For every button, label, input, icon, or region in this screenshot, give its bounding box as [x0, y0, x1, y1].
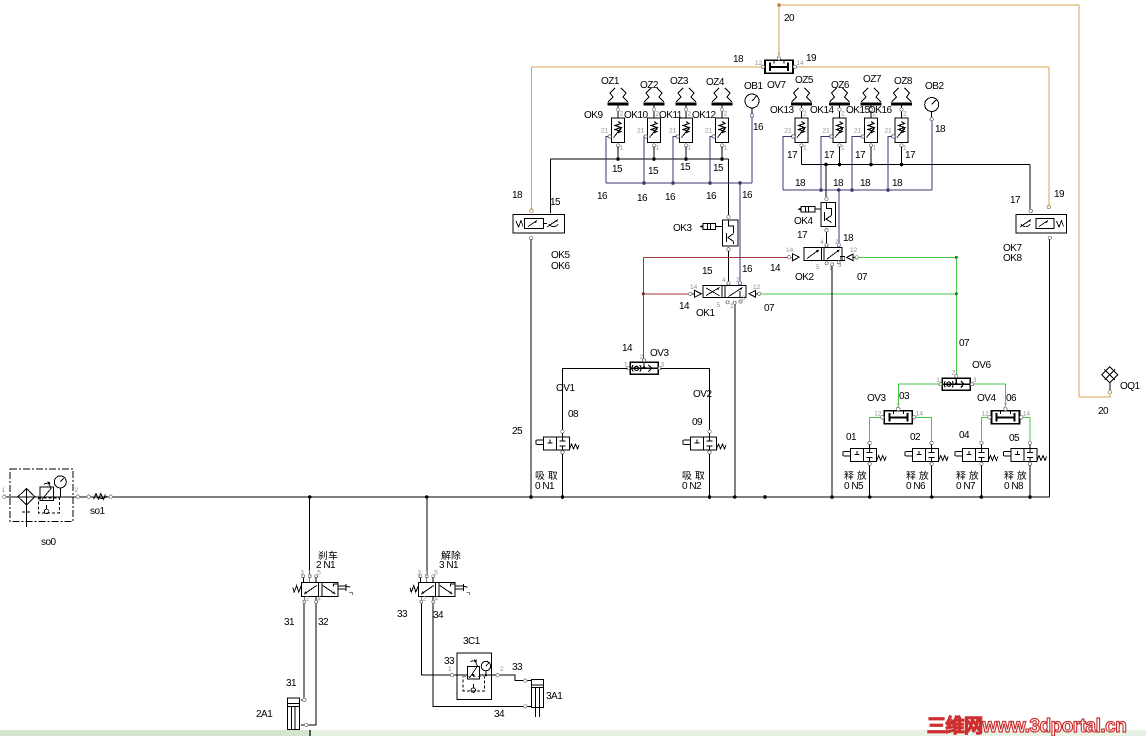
- svg-text:1: 1: [2, 487, 6, 494]
- wire net 17 black bus right group: [802, 147, 1031, 210]
- wire OK13 to bus: [801, 147, 803, 165]
- svg-text:33: 33: [444, 656, 455, 667]
- wire 0N8 to supply bus: [1029, 466, 1031, 498]
- junction net 20: [777, 3, 780, 6]
- svg-text:16: 16: [665, 192, 676, 203]
- svg-text:20: 20: [1098, 406, 1109, 417]
- wire OV4r to 0N8: [1023, 417, 1030, 441]
- svg-text:31: 31: [284, 617, 295, 628]
- check-throttle valve OK10: [637, 111, 661, 152]
- wire net 14 red pilot lines: [643, 258, 787, 359]
- svg-text:0 N7: 0 N7: [956, 481, 976, 492]
- svg-text:0 N1: 0 N1: [535, 481, 555, 492]
- wire OK9 to bus: [617, 147, 619, 160]
- wire OB1 to bus: [751, 117, 753, 184]
- svg-text:33: 33: [512, 662, 523, 673]
- junctions net 15: [616, 157, 724, 161]
- svg-text:25: 25: [512, 426, 523, 437]
- 5/2 pilot valve OK1: [689, 282, 761, 305]
- wire OV6 to OV4 right: [973, 384, 1005, 406]
- svg-text:OK5: OK5: [551, 250, 570, 261]
- svg-text:OK14: OK14: [810, 105, 835, 116]
- wire net 20 top orange supply: [779, 5, 1110, 397]
- svg-text:2: 2: [736, 277, 740, 284]
- wire bus 16: [606, 182, 752, 184]
- svg-text:3 N1: 3 N1: [439, 560, 459, 571]
- pressure gauge OB2: [925, 98, 939, 121]
- wire 15 down to OK3: [728, 159, 730, 215]
- svg-text:07: 07: [857, 272, 868, 283]
- svg-text:OZ7: OZ7: [863, 74, 882, 85]
- svg-text:17: 17: [1010, 195, 1021, 206]
- wire red vertical: [642, 258, 644, 294]
- svg-text:OK11: OK11: [659, 110, 683, 121]
- svg-text:33: 33: [397, 609, 408, 620]
- wire bus 15: [550, 158, 728, 160]
- svg-text:18: 18: [892, 178, 903, 189]
- wire net 07 green lines: [761, 257, 956, 376]
- svg-text:2: 2: [500, 666, 504, 673]
- wire right vertical 20: [1078, 5, 1080, 397]
- wire OK10 pilot to bus: [643, 137, 646, 184]
- wire green vertical to OV6: [955, 257, 957, 376]
- wire OK16 to bus: [901, 147, 903, 165]
- wire 0N1 to supply bus: [562, 454, 564, 497]
- svg-text:31: 31: [286, 678, 297, 689]
- svg-text:15: 15: [713, 163, 724, 174]
- wire red to OV3 port 2: [642, 294, 644, 359]
- wire bus to OK1 port 2: [739, 183, 741, 282]
- pressure regulator 3C1: [454, 653, 496, 700]
- svg-text:OQ1: OQ1: [1120, 381, 1141, 392]
- wire OV3 to 0N1: [563, 368, 628, 429]
- shuttle valve OV3 middle: [624, 354, 665, 375]
- svg-text:16: 16: [742, 264, 753, 275]
- svg-text:32: 32: [318, 617, 329, 628]
- suction cup OZ7: [861, 88, 882, 118]
- wire green from OK1 port 12: [761, 293, 956, 295]
- svg-text:15: 15: [612, 164, 623, 175]
- wire red to OK2 port 14: [643, 257, 787, 259]
- svg-text:08: 08: [568, 409, 579, 420]
- port circles wire 33: [450, 674, 453, 677]
- check-throttle valve OK14: [823, 111, 847, 152]
- svg-text:OB2: OB2: [925, 81, 944, 92]
- svg-text:4: 4: [820, 239, 824, 246]
- wire net 18 blue bus right group: [783, 121, 932, 244]
- wire 34: [433, 603, 531, 706]
- cylinder 2A1: [287, 698, 299, 734]
- svg-text:18: 18: [512, 190, 523, 201]
- wire 0N6 to supply bus: [931, 466, 933, 498]
- check-throttle valve OK16: [885, 111, 909, 152]
- svg-text:04: 04: [959, 430, 970, 441]
- svg-text:01: 01: [846, 432, 857, 443]
- wire OK15 to bus: [870, 147, 872, 165]
- wire OK7 down to supply bus: [1049, 240, 1051, 497]
- svg-text:4: 4: [722, 277, 726, 284]
- svg-text:19: 19: [1054, 189, 1065, 200]
- wire net 25 main supply bus: [4, 496, 1049, 498]
- pilot check valve OK3: [700, 215, 739, 251]
- junctions supply bus: [308, 495, 1032, 499]
- wire bus 17: [802, 164, 1031, 166]
- wire OK9 pilot to bus: [606, 137, 609, 184]
- svg-text:19: 19: [806, 53, 817, 64]
- svg-text:15: 15: [680, 162, 691, 173]
- wire net 18 orange to OK5: [532, 67, 762, 209]
- pressure gauge OB1: [745, 94, 759, 117]
- wire OV3r to 0N6: [916, 417, 932, 441]
- push button valve 0N1: [536, 430, 579, 454]
- svg-text:15: 15: [550, 197, 561, 208]
- svg-text:17: 17: [787, 150, 798, 161]
- svg-text:OK4: OK4: [794, 216, 813, 227]
- svg-text:1: 1: [448, 666, 452, 673]
- svg-text:34: 34: [494, 709, 505, 720]
- push button valve 0N2: [683, 430, 726, 454]
- wire bus to OK2 port 2: [838, 190, 840, 243]
- pilot check valve OK4: [798, 197, 836, 232]
- port circle wire 31: [303, 698, 306, 701]
- wire OK10 to bus: [653, 147, 655, 160]
- air service unit so0: [3, 469, 113, 527]
- svg-text:0 N8: 0 N8: [1004, 481, 1024, 492]
- 5/2 pilot valve OK2: [788, 244, 859, 266]
- suction cup OZ2: [644, 88, 665, 118]
- svg-text:2: 2: [75, 487, 79, 494]
- svg-text:OK15: OK15: [846, 105, 871, 116]
- svg-text:OV3: OV3: [650, 348, 669, 359]
- wire 32: [301, 603, 316, 725]
- shuttle valve OV6: [936, 370, 977, 391]
- suction cup OZ6: [829, 88, 850, 118]
- svg-text:18: 18: [833, 178, 844, 189]
- svg-text:18: 18: [733, 54, 744, 65]
- svg-text:17: 17: [824, 150, 835, 161]
- two-pressure valve OV3 right: [874, 402, 923, 424]
- svg-text:16: 16: [597, 191, 608, 202]
- wire OK13 pilot to bus: [783, 137, 792, 191]
- svg-text:15: 15: [648, 166, 659, 177]
- check-throttle valve OK15: [854, 111, 878, 152]
- svg-text:OK1: OK1: [696, 308, 715, 319]
- suction cup OZ5: [791, 88, 812, 118]
- push button valve 0N5: [843, 441, 886, 465]
- svg-text:0 N5: 0 N5: [844, 481, 864, 492]
- junction net 14: [642, 292, 645, 295]
- svg-text:OK9: OK9: [584, 110, 603, 121]
- svg-text:18: 18: [795, 178, 806, 189]
- wire drop to OV7 port 2: [778, 5, 780, 56]
- push button valve 0N6: [905, 441, 948, 465]
- junctions net 18: [819, 188, 890, 192]
- svg-text:17: 17: [855, 150, 866, 161]
- wire net 16 blue bus left group: [606, 117, 752, 282]
- svg-text:OK6: OK6: [551, 261, 570, 272]
- two-pressure valve OV4 right: [981, 402, 1030, 424]
- svg-text:5: 5: [717, 302, 721, 309]
- svg-text:18: 18: [860, 178, 871, 189]
- svg-text:02: 02: [910, 432, 921, 443]
- wire OV4r to 0N7: [981, 417, 987, 441]
- suction cup OZ4: [712, 88, 733, 118]
- svg-text:03: 03: [899, 391, 910, 402]
- wire red to OK1 port 14: [643, 293, 688, 295]
- svg-text:14: 14: [770, 263, 781, 274]
- wire net 19 orange to OK7: [797, 67, 1049, 205]
- combined valve OK7 OK8: [1016, 205, 1067, 239]
- svg-text:OZ8: OZ8: [894, 76, 913, 87]
- svg-text:15: 15: [702, 266, 713, 277]
- svg-text:14: 14: [622, 343, 633, 354]
- wire OV6 to OV3 right: [898, 384, 1005, 406]
- svg-text:OV2: OV2: [693, 389, 712, 400]
- push button valve 0N7: [955, 441, 998, 465]
- svg-text:5: 5: [816, 264, 820, 271]
- svg-text:20: 20: [784, 13, 795, 24]
- wire green from OK2 port 12: [858, 256, 956, 258]
- svg-text:OK3: OK3: [673, 223, 692, 234]
- svg-text:OK16: OK16: [868, 105, 893, 116]
- port circle wire 32: [305, 723, 308, 726]
- wire OK4 to OK2 port 4: [826, 232, 828, 243]
- wire 33: [421, 603, 531, 680]
- wire OB2 to bus: [931, 121, 933, 191]
- svg-text:05: 05: [1009, 433, 1020, 444]
- wire top horizontal 20: [779, 4, 1079, 6]
- port circle wire 34: [524, 705, 527, 708]
- svg-text:OZ5: OZ5: [795, 75, 814, 86]
- svg-text:OZ1: OZ1: [601, 76, 620, 87]
- svg-text:1: 1: [730, 303, 734, 310]
- suction cup OZ8: [891, 88, 912, 118]
- svg-text:OK13: OK13: [770, 105, 795, 116]
- svg-text:OV1: OV1: [556, 383, 575, 394]
- svg-text:OB1: OB1: [744, 81, 763, 92]
- svg-text:07: 07: [959, 338, 970, 349]
- svg-text:06: 06: [1006, 393, 1017, 404]
- svg-text:OV7: OV7: [767, 80, 786, 91]
- svg-text:0 N2: 0 N2: [682, 481, 702, 492]
- push button valve 0N8: [1004, 441, 1047, 465]
- svg-text:OK10: OK10: [624, 110, 649, 121]
- nozzle OQ1: [1102, 367, 1118, 394]
- watermark: [927, 711, 1126, 736]
- svg-text:so0: so0: [41, 537, 57, 548]
- svg-text:18: 18: [935, 124, 946, 135]
- svg-text:OV6: OV6: [972, 360, 991, 371]
- wire OK12 to bus: [721, 147, 723, 160]
- wire OK5 down to supply bus: [530, 240, 532, 497]
- svg-text:14: 14: [690, 284, 698, 291]
- svg-text:09: 09: [692, 417, 703, 428]
- check-throttle valve OK9: [601, 111, 625, 152]
- svg-text:18: 18: [843, 233, 854, 244]
- svg-text:12: 12: [850, 247, 858, 254]
- svg-text:2A1: 2A1: [256, 709, 273, 720]
- svg-text:OZ3: OZ3: [670, 76, 689, 87]
- wire OK11 pilot to bus: [673, 137, 677, 184]
- svg-text:0 N6: 0 N6: [906, 481, 926, 492]
- junctions net 07: [955, 256, 958, 259]
- junctions net 16: [642, 181, 742, 185]
- throttle so1: [94, 494, 107, 500]
- svg-text:17: 17: [797, 230, 808, 241]
- combined valve OK5 OK6: [513, 209, 565, 240]
- check-throttle valve OK11: [669, 111, 693, 152]
- lever valve 3N1: [410, 570, 470, 604]
- check-throttle valve OK13: [785, 111, 809, 152]
- svg-text:34: 34: [433, 610, 444, 621]
- lever valve 2N1: [293, 570, 353, 604]
- wire OK14 pilot to bus: [821, 137, 830, 191]
- svg-text:07: 07: [764, 303, 775, 314]
- svg-text:OV3: OV3: [867, 393, 886, 404]
- svg-text:OK12: OK12: [692, 110, 717, 121]
- svg-text:3A1: 3A1: [546, 691, 563, 702]
- wire OK16 pilot to bus: [888, 137, 892, 191]
- wire 31: [301, 603, 304, 700]
- svg-text:OZ4: OZ4: [706, 77, 725, 88]
- wire OK2 port 1 down to supply bus: [831, 266, 833, 497]
- wire to OQ1: [1079, 394, 1110, 398]
- wire 0N5 to supply bus: [869, 466, 871, 498]
- svg-text:3: 3: [838, 262, 842, 269]
- wire bus to OK7: [1029, 165, 1031, 210]
- wire OK14 to bus: [839, 147, 841, 165]
- wire 0N7 to supply bus: [980, 466, 982, 498]
- svg-text:14: 14: [679, 301, 690, 312]
- svg-text:OV4: OV4: [977, 393, 996, 404]
- suction cup OZ3: [676, 88, 697, 118]
- svg-text:12: 12: [753, 284, 761, 291]
- wire bus 18: [783, 189, 932, 191]
- cylinder 3A1: [531, 680, 543, 717]
- bottom taskbar strip: [0, 730, 1146, 736]
- wire net 15 black bus left group: [550, 147, 728, 216]
- svg-text:3C1: 3C1: [463, 636, 481, 647]
- svg-text:16: 16: [637, 193, 648, 204]
- wire OK11 to bus: [685, 147, 687, 160]
- svg-text:2: 2: [835, 239, 839, 246]
- svg-text:3: 3: [742, 295, 746, 302]
- wire 15 down to OK5: [549, 159, 551, 213]
- svg-text:14: 14: [786, 247, 794, 254]
- svg-text:OZ2: OZ2: [640, 80, 659, 91]
- wire OK3 to OK1 port 4: [728, 251, 730, 282]
- svg-text:16: 16: [753, 122, 764, 133]
- wire 0N2 to supply bus: [709, 454, 711, 497]
- wire riser to 3N1: [426, 497, 428, 575]
- wire OK15 pilot to bus: [852, 137, 862, 191]
- svg-text:OK8: OK8: [1003, 253, 1022, 264]
- wire bus to OK4: [825, 165, 827, 198]
- svg-text:16: 16: [742, 190, 753, 201]
- wire riser to 2N1: [309, 497, 311, 575]
- wire OV3r to 0N5: [870, 417, 1030, 441]
- check-throttle valve OK12: [705, 111, 729, 152]
- svg-text:OZ6: OZ6: [831, 80, 850, 91]
- wire OK12 pilot to bus: [710, 137, 713, 184]
- wire OV3 to 0N2: [661, 368, 710, 429]
- svg-text:16: 16: [706, 191, 717, 202]
- wire OK1 port 1 down to supply bus: [734, 304, 736, 497]
- two-pressure valve OV7: [755, 52, 804, 74]
- svg-text:OK2: OK2: [795, 272, 814, 283]
- junctions net 17: [824, 163, 903, 167]
- suction cup OZ1: [608, 88, 629, 118]
- svg-text:so1: so1: [90, 506, 106, 517]
- svg-text:17: 17: [905, 150, 916, 161]
